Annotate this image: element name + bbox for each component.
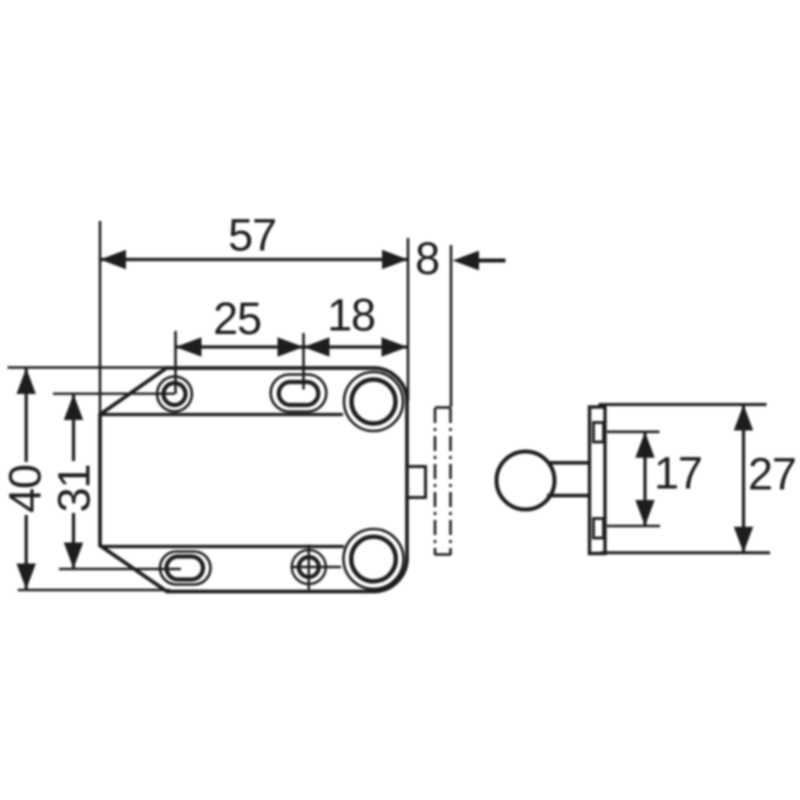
top-left mounting hole thin ring <box>157 377 192 412</box>
57 left arrowhead <box>100 250 126 269</box>
31 dimension line lower segment <box>72 513 75 569</box>
18 right arrowhead <box>382 337 408 356</box>
27 bottom arrowhead <box>734 527 753 553</box>
bottom small hole thick circle <box>299 557 319 577</box>
side view: top body line <box>599 403 767 406</box>
18 left arrowhead <box>304 337 330 356</box>
17 dimension line <box>643 432 646 526</box>
25/18 dimension line <box>176 345 408 348</box>
8 leader arrowhead <box>453 251 480 271</box>
extension line left of 25 dim <box>174 331 177 394</box>
extension line right of 57 dim <box>407 238 410 401</box>
17 bottom arrowhead <box>635 500 654 526</box>
svg-text:18: 18 <box>327 290 375 341</box>
27 top arrowhead <box>734 405 753 431</box>
phantom strike plate top edge <box>435 406 451 409</box>
side view: bottom notch <box>594 519 604 539</box>
svg-text:31: 31 <box>49 465 100 513</box>
31 bottom arrowhead <box>64 543 83 569</box>
extension line top of 17 dim <box>607 430 660 433</box>
25 left arrowhead <box>176 337 202 356</box>
57 right arrowhead <box>382 250 408 269</box>
side view: top notch <box>594 423 604 443</box>
top-right hole thick circle <box>352 380 396 424</box>
inner top edge line <box>100 413 343 416</box>
svg-text:57: 57 <box>228 210 276 261</box>
bottom small hole crosshair vertical <box>308 545 310 590</box>
40 top arrowhead <box>17 368 36 394</box>
extension line top of 40 dim <box>8 366 171 369</box>
side view: stem top line <box>547 461 590 465</box>
8 leader tail <box>478 259 506 263</box>
40 bottom arrowhead <box>17 564 36 590</box>
side view: stem bottom line <box>547 494 590 498</box>
right side tab on body <box>407 467 426 498</box>
bottom-right hole thick circle <box>351 537 396 582</box>
extension line top of 31 dim <box>53 393 175 395</box>
phantom strike plate right dash-dot line <box>449 408 452 555</box>
inner bottom edge line <box>101 545 344 548</box>
bottom-left slot inner <box>167 557 204 580</box>
top slot inner <box>279 382 319 405</box>
extension line bottom of 17 dim <box>607 525 660 528</box>
31 top arrowhead <box>64 394 83 420</box>
31 dimension line upper segment <box>72 394 75 461</box>
phantom strike plate left dash-dot line <box>434 408 437 555</box>
bottom-left slot outer ring <box>160 552 211 585</box>
27 dimension line <box>742 405 745 553</box>
extension line bottom of 31 dim <box>59 568 181 570</box>
svg-text:25: 25 <box>213 293 261 344</box>
extension line bottom of 40 dim <box>18 589 170 592</box>
side view: bottom body line <box>600 551 770 554</box>
40 dimension line lower segment <box>25 515 28 590</box>
svg-text:40: 40 <box>0 465 51 513</box>
side view: ball <box>497 452 555 510</box>
top slot outer ring <box>271 375 327 412</box>
svg-text:17: 17 <box>654 448 702 499</box>
extension line left of 57 dim <box>99 221 102 415</box>
top-right boss thin circle <box>344 372 403 431</box>
body outline (top view of latch) <box>100 368 407 592</box>
svg-text:8: 8 <box>415 233 439 284</box>
side view: mounting plate <box>590 407 606 554</box>
bottom small hole thin ring <box>292 550 326 584</box>
57 dimension line <box>100 258 408 261</box>
40 dimension line upper segment <box>25 368 28 462</box>
phantom strike plate bottom edge <box>435 553 451 556</box>
extension line between 25 and 18 <box>302 333 305 390</box>
bottom small hole crosshair horizontal <box>291 566 342 568</box>
17 top arrowhead <box>635 432 654 458</box>
extension line right of 8 dim <box>450 245 453 407</box>
svg-text:27: 27 <box>748 449 796 500</box>
25 right arrowhead <box>278 337 304 356</box>
bottom-right boss thin circle <box>344 529 404 589</box>
top-left mounting hole thick circle <box>164 383 186 405</box>
